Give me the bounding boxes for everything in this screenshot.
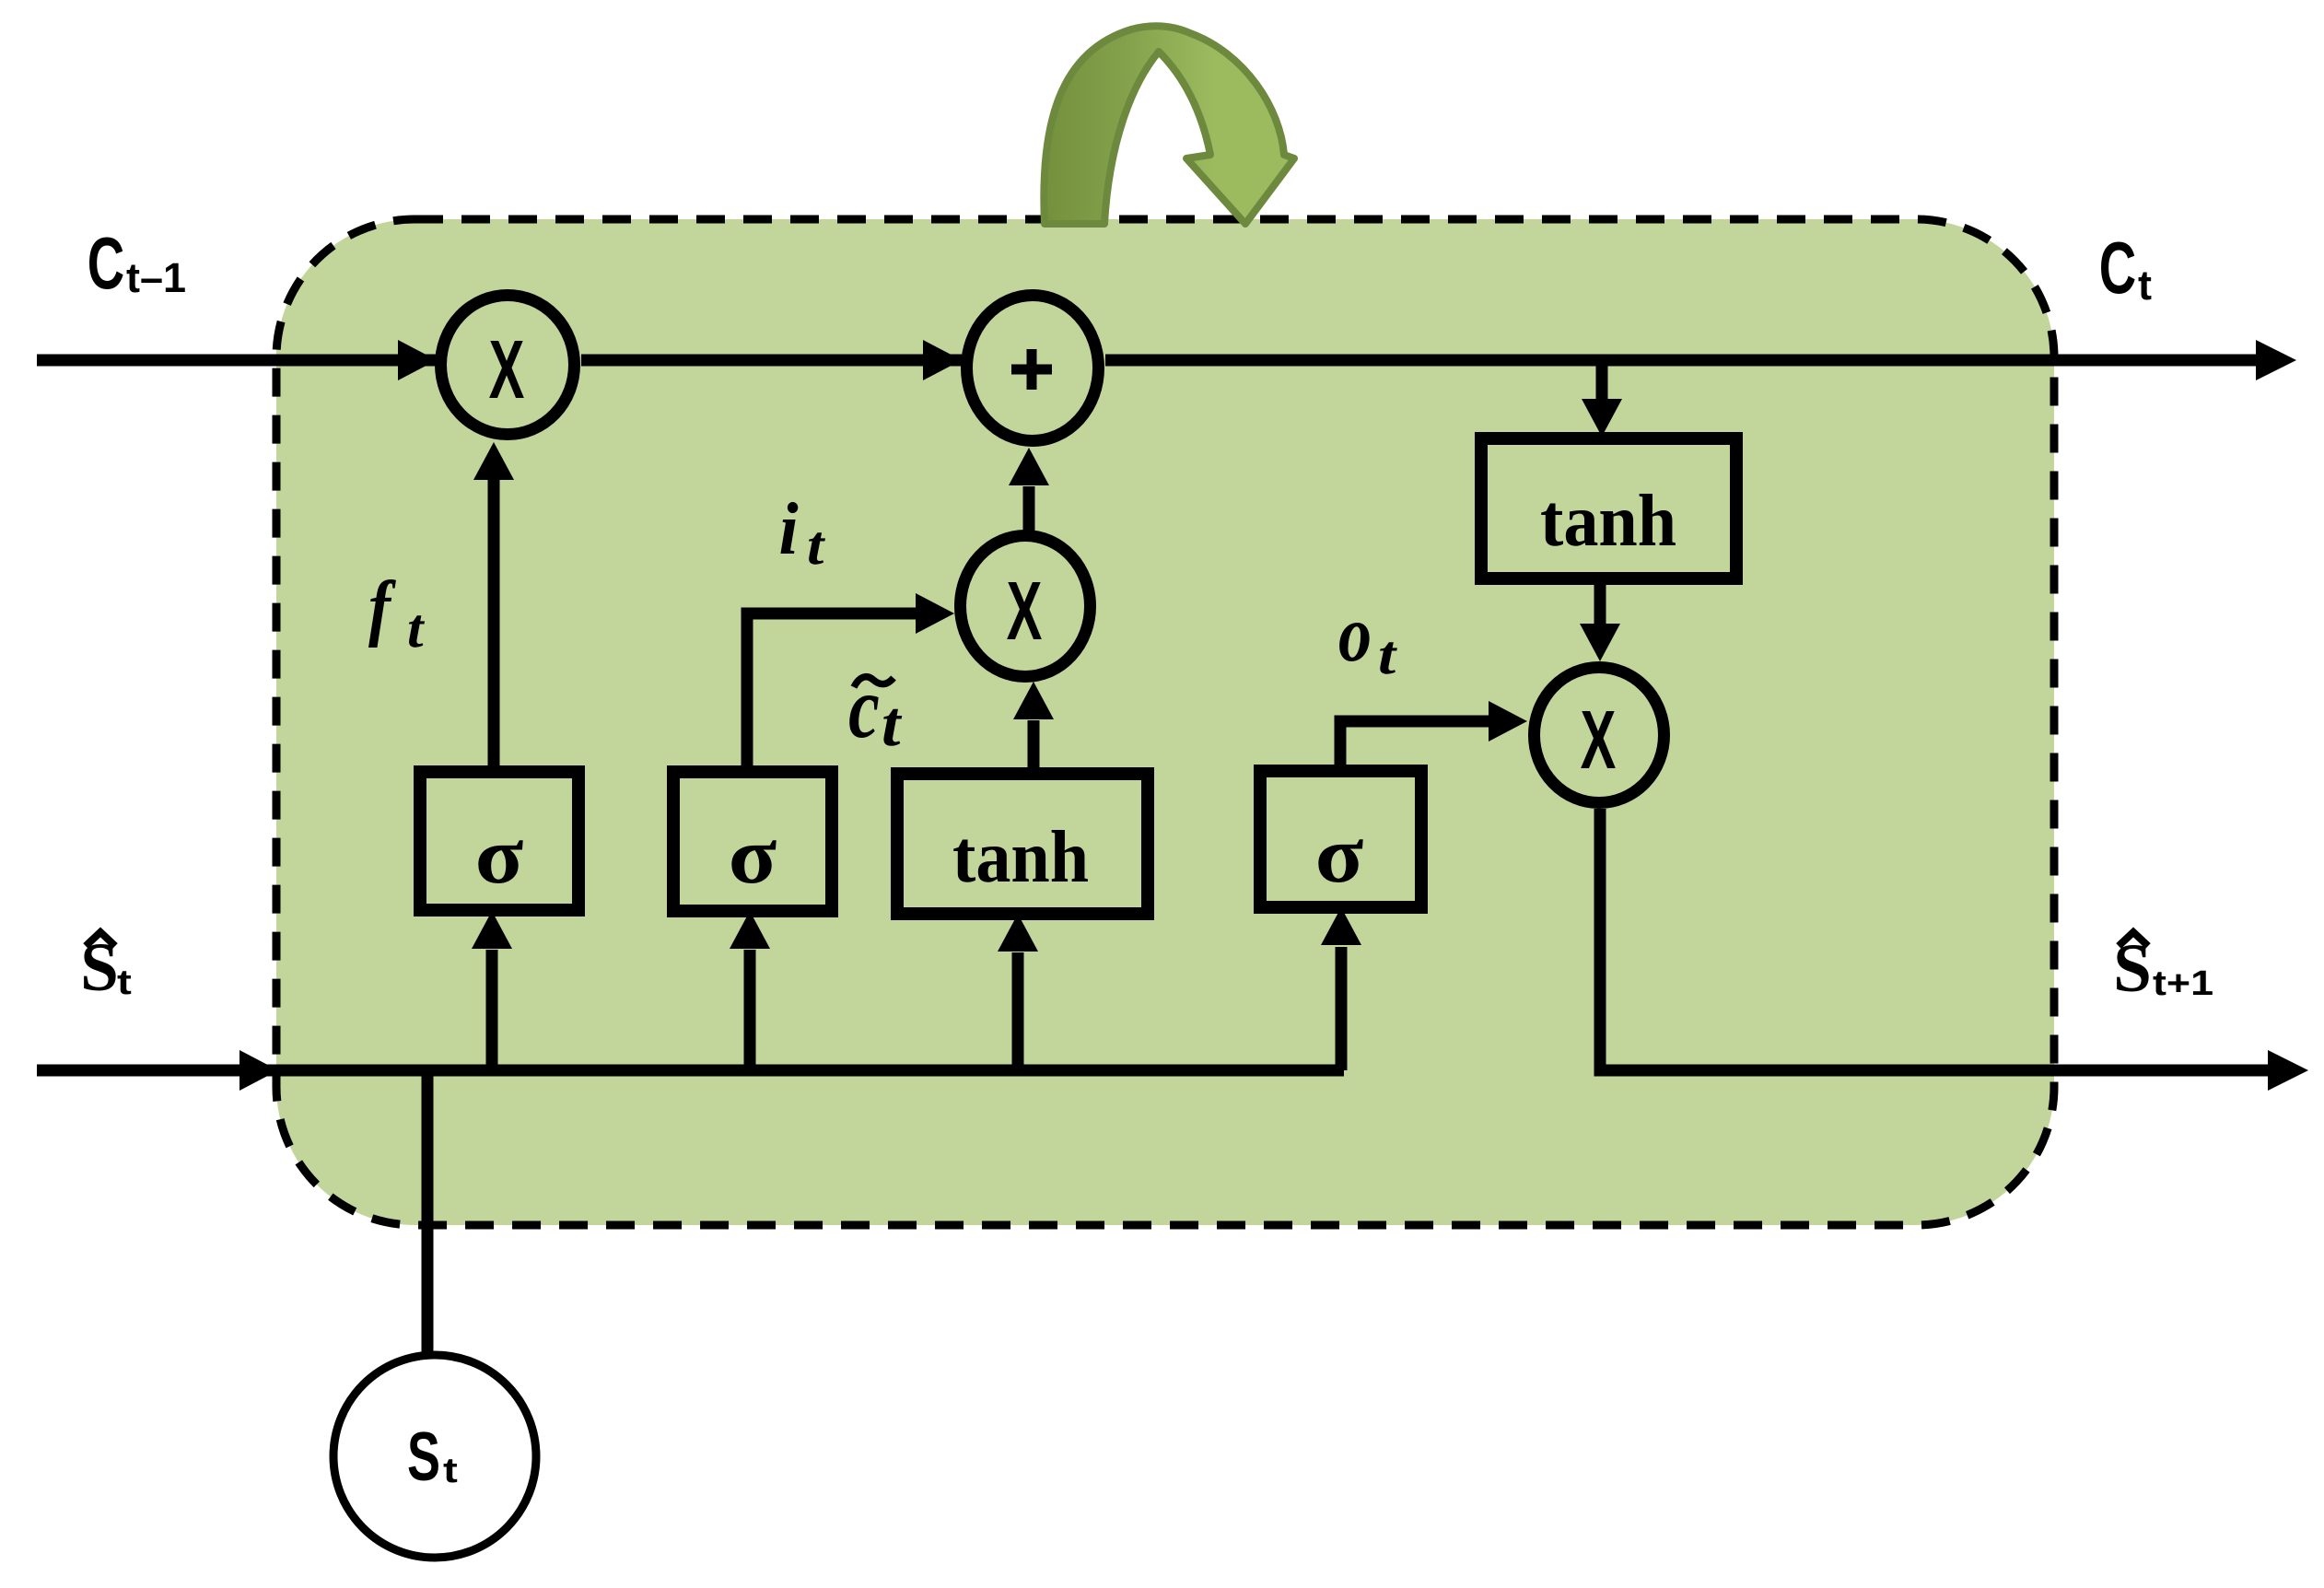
wire: elbow o_t from sigma box 4 into X3	[1340, 721, 1489, 771]
sigma box 4 (output gate)	[1260, 771, 1421, 907]
svg-text:t: t	[807, 515, 826, 577]
wire: down to S_t circle	[422, 1070, 434, 1355]
svg-text:tanh: tanh	[1540, 480, 1676, 563]
svg-text:σ: σ	[729, 812, 777, 901]
multiply gate X3	[1535, 668, 1664, 803]
svg-text:t: t	[443, 1451, 458, 1489]
wire: cell state X1 to add gate	[581, 355, 962, 367]
wire: up to tanh 1	[1012, 952, 1024, 1070]
arrowhead into add gate	[923, 340, 962, 380]
wire: up to sigma 4	[1336, 947, 1348, 1070]
wire: cell state add gate to C_t output	[1105, 355, 2258, 367]
add gate	[967, 296, 1099, 441]
svg-text:tanh: tanh	[952, 816, 1089, 899]
wire: X3 down and out to S_{t+1}	[1600, 809, 2268, 1070]
wire: up to sigma 2	[744, 950, 756, 1070]
svg-text:σ: σ	[475, 812, 524, 901]
svg-text:i: i	[778, 487, 798, 569]
wire: tanh box 1 up into X2	[1028, 720, 1040, 774]
svg-text:X: X	[1581, 694, 1617, 787]
hidden state input line S_t	[37, 1065, 1344, 1077]
svg-text:t: t	[882, 688, 903, 760]
wire: X2 up into add gate	[1023, 486, 1035, 532]
arrowhead at C_t output	[2256, 340, 2296, 380]
multiply gate X2	[961, 536, 1091, 677]
svg-text:c: c	[848, 659, 880, 756]
svg-text:o: o	[1338, 590, 1372, 679]
svg-text:C: C	[88, 221, 124, 304]
arrowhead into multiply gate X1	[398, 340, 437, 380]
multiply gate X1	[441, 296, 575, 435]
wire: elbow i_t from sigma box 2 into X2	[747, 613, 917, 772]
tanh box 2 (cell output squash)	[1481, 438, 1736, 578]
tanh box 1 (candidate)	[897, 774, 1148, 914]
svg-text:t–1: t–1	[126, 254, 186, 301]
svg-text:σ: σ	[1315, 811, 1364, 900]
wire: up to sigma 1	[486, 950, 498, 1070]
svg-text:t+1: t+1	[2153, 963, 2213, 1002]
svg-text:t: t	[117, 963, 132, 1001]
S_t input circle	[333, 1355, 536, 1558]
svg-text:t: t	[2138, 262, 2152, 309]
sigma box 1 (forget gate)	[420, 772, 578, 910]
wire: branch down from cell state into tanh box	[1596, 366, 1608, 400]
svg-text:C: C	[2099, 226, 2136, 309]
wire: cell state C_{t-1} into multiply gate X1	[37, 355, 437, 367]
svg-text:S: S	[407, 1418, 440, 1495]
recurrence loop arrow (green)	[1044, 26, 1294, 224]
svg-text:X: X	[1007, 565, 1043, 658]
LSTM cell body (dashed rounded rectangle)	[276, 219, 2054, 1225]
sigma box 2 (input gate)	[673, 772, 832, 911]
svg-text:t: t	[407, 598, 425, 659]
svg-text:X: X	[489, 323, 525, 416]
svg-text:t: t	[1378, 624, 1397, 685]
wire: tanh box 2 down into X3	[1594, 578, 1606, 625]
wire: f_t arrow from sigma box 1 up into X1	[488, 479, 500, 772]
